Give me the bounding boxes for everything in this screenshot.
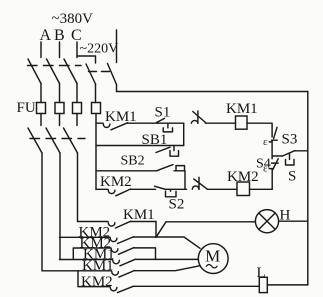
svg-text:KM1: KM1 [82,258,114,274]
svg-text:KM2: KM2 [81,274,113,290]
svg-text:H: H [280,208,291,224]
svg-text:S: S [288,169,296,185]
svg-text:~220V: ~220V [80,42,119,57]
svg-text:ε: ε [263,163,268,175]
svg-text:L: L [257,265,266,281]
svg-text:S2: S2 [169,197,185,213]
svg-text:M: M [205,247,220,266]
svg-text:A: A [40,27,52,44]
svg-text:S3: S3 [282,132,298,148]
svg-text:SB1: SB1 [142,132,168,148]
svg-text:S1: S1 [155,105,171,121]
svg-text:B: B [54,27,65,44]
svg-text:KM2: KM2 [100,174,132,190]
svg-text:SB2: SB2 [121,154,145,169]
svg-text:ε: ε [263,136,268,148]
svg-text:FU: FU [17,100,36,116]
svg-text:KM1: KM1 [123,207,155,223]
svg-text:KM1: KM1 [226,101,258,117]
svg-text:KM1: KM1 [105,109,137,125]
svg-text:KM2: KM2 [227,169,259,185]
svg-text:~380V: ~380V [52,11,94,27]
